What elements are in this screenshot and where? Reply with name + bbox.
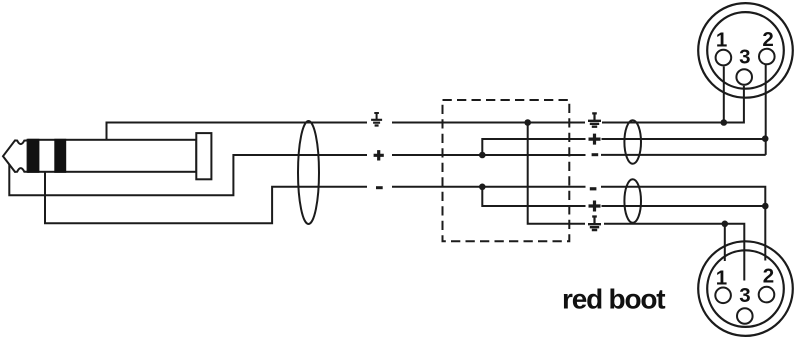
wire minus row right top [601, 154, 766, 156]
junction dot pin1 bottom [722, 221, 729, 228]
ground symbol left [371, 113, 382, 126]
wire branch plus top [482, 139, 585, 155]
cable ellipse top right [624, 120, 641, 163]
wire minus row mid [392, 186, 586, 188]
junction dot plus-branch bottom [479, 184, 486, 191]
dashed junction box [443, 100, 570, 241]
wire minus row right bottom / pin2 bottom vertical [601, 187, 765, 261]
insulator band 1 [28, 139, 40, 173]
svg-text:1: 1 [716, 29, 727, 52]
plus symbol right top [589, 134, 601, 145]
XLR top pin 2 [759, 49, 775, 65]
wire shield to bottom ground [528, 123, 585, 224]
minus symbol left [376, 186, 383, 189]
svg-text:1: 1 [716, 267, 727, 290]
junction dot pin2 bottom [762, 203, 769, 210]
ground symbol right top [588, 113, 601, 126]
plus symbol right bottom [589, 201, 601, 212]
XLR female top outer shell [698, 3, 793, 98]
svg-text:2: 2 [763, 265, 774, 288]
wire plus row right top [602, 138, 766, 140]
junction dot pin1 top [721, 119, 728, 126]
ground symbol right bottom [588, 217, 601, 231]
cable ellipse [298, 121, 319, 224]
XLR female top insert [707, 12, 784, 89]
junction dot plus-branch top [479, 152, 486, 159]
minus symbol right top [592, 153, 599, 156]
wire plus row mid [392, 154, 586, 156]
plus symbol left [374, 150, 384, 160]
wire plus row right bottom [602, 205, 766, 207]
XLR female bottom insert [707, 250, 784, 327]
XLR bottom pin 1 [715, 288, 731, 304]
junction dot shield box [524, 119, 531, 126]
cable ellipse bottom right [624, 179, 641, 222]
XLR top pin 3 [736, 69, 752, 85]
ring wire [45, 173, 367, 224]
wire ground row right bottom / pin3 bottom vertical [604, 224, 744, 281]
wire branch plus bottom [482, 187, 585, 206]
XLR bottom pin 3 [737, 308, 753, 324]
svg-text:3: 3 [739, 46, 750, 69]
junction dot pin2 top [762, 135, 769, 142]
jack tip [3, 140, 28, 172]
insulator band 2 [54, 139, 66, 173]
wire shield row mid [392, 122, 585, 124]
jack barrel (sleeve) [28, 140, 197, 172]
minus symbol right bottom [590, 187, 597, 190]
svg-text:2: 2 [762, 28, 773, 51]
wire pin1 top vertical [723, 67, 725, 123]
wire pin1 bottom vertical [724, 224, 726, 261]
tip wire [9, 155, 367, 195]
XLR top pin 1 [716, 50, 732, 66]
XLR female bottom outer shell [698, 241, 793, 336]
wire shield row right / pin3 top [602, 86, 744, 123]
wire pin2 top vertical [765, 65, 767, 155]
XLR bottom pin 2 [759, 287, 775, 303]
svg-text:3: 3 [739, 284, 750, 307]
jack collar [196, 133, 211, 179]
svg-text:red boot: red boot [562, 284, 665, 315]
wire shield row left segment [107, 123, 368, 140]
